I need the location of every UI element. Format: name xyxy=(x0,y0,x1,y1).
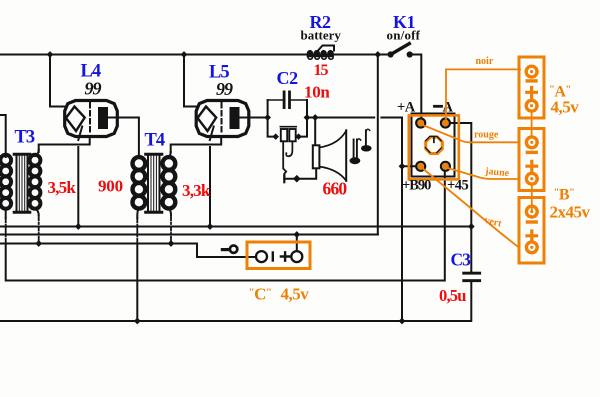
capacitor C3 plates xyxy=(462,272,481,275)
node junction line3 at T3 secondary xyxy=(35,240,42,247)
tube socket outer black rect xyxy=(412,114,455,177)
orange wire noir (-A to battery A minus) xyxy=(446,69,520,118)
wire phone left lead down xyxy=(283,141,286,176)
battery B upper polarity minus xyxy=(527,151,536,154)
node junction top bus at L4 xyxy=(47,51,54,58)
speaker horn top flare xyxy=(319,131,346,148)
tube L5 grid (dashed) xyxy=(221,103,223,135)
jack plug right xyxy=(361,129,372,151)
node junction speaker top xyxy=(312,114,319,121)
node junction line3 at T4 secondary xyxy=(168,240,175,247)
phone terminal tick xyxy=(283,175,285,182)
transformer T3 primary winding xyxy=(0,155,11,209)
tube socket center guide octagon xyxy=(426,137,443,153)
wire L4 grid to T3 secondary xyxy=(39,137,90,153)
wire C2/phone right leg xyxy=(302,100,308,137)
tube L5 plate xyxy=(230,107,240,129)
battery B lower polarity minus xyxy=(527,220,536,223)
tube L4 grid (dashed) xyxy=(89,103,91,135)
transformer T3 core xyxy=(14,154,30,213)
svg-text:99: 99 xyxy=(216,79,233,99)
phone earpiece coils xyxy=(281,129,287,141)
svg-text:3,3k: 3,3k xyxy=(182,181,211,200)
phone earpiece diaphragm caps xyxy=(280,126,296,128)
node junction line1 at L4 filament xyxy=(75,223,82,230)
jack plug left xyxy=(350,139,361,164)
svg-text:3,5k: 3,5k xyxy=(48,178,77,197)
socket pin -A xyxy=(441,119,450,128)
resistor R2 slider tap bracket xyxy=(319,46,335,51)
battery A minus terminal xyxy=(526,66,537,77)
node junction bottom bus at T4 primary xyxy=(134,318,141,325)
wire L5 filament down to bus line1 xyxy=(209,147,211,227)
transformer T3 secondary winding xyxy=(30,155,41,209)
wire T4 primary bottom lead to bottom bus (dashed through buses) xyxy=(137,208,139,218)
svg-text:10n: 10n xyxy=(304,83,330,102)
orange wire jaune (+45 to battery B middle) xyxy=(446,168,519,180)
battery A plus terminal xyxy=(526,100,537,111)
wire speaker top to C2 node xyxy=(314,118,316,146)
orange wire rouge (+A to battery B top) xyxy=(422,125,520,143)
wire L4 plate to T4 primary xyxy=(108,118,139,159)
svg-text:C3: C3 xyxy=(451,250,472,270)
wire node down to bottom bus xyxy=(401,166,403,321)
capacitor C2 plates xyxy=(283,91,286,110)
svg-text:+B90: +B90 xyxy=(402,178,431,194)
wire T3 primary top lead xyxy=(0,115,6,157)
transformer T4 secondary winding xyxy=(163,157,176,209)
node junction at +B90 branch xyxy=(399,163,406,170)
svg-text:99: 99 xyxy=(85,79,102,99)
transformer T3 xyxy=(0,115,123,247)
wire node to socket pin +B90 xyxy=(402,165,416,167)
wire C2 left stub xyxy=(268,99,283,101)
socket pin +A xyxy=(416,119,425,128)
svg-text:+A: +A xyxy=(397,100,416,116)
battery B upper minus terminal xyxy=(526,137,537,148)
tube L4 envelope xyxy=(65,101,118,137)
svg-text:jaune: jaune xyxy=(484,166,510,179)
orange wire battery A plus to B top xyxy=(531,111,533,137)
bus line3 to battery C minus xyxy=(0,244,256,258)
node junction bottom bus at 402 xyxy=(399,318,406,325)
wire K1 right contact to socket pin +A xyxy=(410,55,421,119)
bus line2 xyxy=(0,234,378,236)
tube L4 filament lead tail xyxy=(78,127,82,141)
orange wire battery B upper to lower xyxy=(531,184,533,212)
node junction L5 plate / C2 / phone xyxy=(264,114,271,121)
switch K1 pivot contact xyxy=(388,51,394,57)
wire speaker net to socket +B90 pin (with hop over K1 wire) xyxy=(307,118,402,167)
wire K1 left tap down to bus line2 xyxy=(377,55,379,235)
wire L4 filament down to bus line1 xyxy=(77,147,79,227)
wire top bus to tube L5 xyxy=(184,55,198,107)
svg-text:900: 900 xyxy=(98,177,123,196)
transformer T4 core xyxy=(146,154,162,213)
wire socket -A pin to C3 top xyxy=(450,123,471,272)
tube L5 filament lead tail xyxy=(210,127,214,141)
tube L4 filament xyxy=(66,107,85,132)
wire line2 down to battery C plus terminal xyxy=(296,235,298,251)
transformer T4 primary winding xyxy=(133,157,146,209)
resistor R2 rheostat coil xyxy=(307,50,334,57)
connector symbol on C wire xyxy=(222,248,229,251)
svg-text:0,5u: 0,5u xyxy=(439,286,466,305)
svg-text:15: 15 xyxy=(314,62,329,79)
wire T3 primary bottom lead (dashed through buses) xyxy=(5,208,7,218)
wire T4 secondary bottom lead (dashed to line3) xyxy=(169,208,171,215)
battery C plus terminal xyxy=(291,251,302,262)
node junction line1 end at C3 branch xyxy=(468,223,475,230)
label pin -A xyxy=(435,105,442,108)
speaker horn mouth xyxy=(345,130,347,181)
tube socket orange rect xyxy=(409,115,459,179)
svg-text:660: 660 xyxy=(323,179,348,199)
svg-text:T3: T3 xyxy=(15,128,35,148)
svg-text:rouge: rouge xyxy=(474,130,499,141)
battery A block xyxy=(519,57,544,118)
battery B upper polarity plus xyxy=(527,161,537,171)
phone cord hook xyxy=(286,141,292,156)
battery B upper plus terminal xyxy=(526,173,537,184)
svg-text:A: A xyxy=(443,100,454,116)
battery B lower polarity plus xyxy=(527,231,537,241)
bus line1 xyxy=(0,226,471,228)
wire T4 secondary top lead xyxy=(169,152,171,158)
svg-text:4,5v: 4,5v xyxy=(551,98,580,117)
tube L4 plate xyxy=(98,107,108,129)
battery A polarity plus xyxy=(527,88,537,98)
battery B lower minus terminal xyxy=(526,206,537,217)
svg-text:4,5v: 4,5v xyxy=(281,285,310,304)
battery B lower plus terminal xyxy=(526,242,537,253)
svg-text:battery: battery xyxy=(301,28,342,43)
wire L5 grid to T4 secondary xyxy=(171,137,222,153)
svg-text:noir: noir xyxy=(476,56,494,67)
battery C polarity marks xyxy=(272,253,274,261)
phone earpiece right terminal xyxy=(295,133,302,140)
tube L5 envelope xyxy=(196,101,249,137)
svg-text:T4: T4 xyxy=(145,131,165,151)
tube L5 filament xyxy=(198,107,217,132)
battery B lower block xyxy=(519,198,544,264)
node junction C2 right / speaker net xyxy=(304,114,311,121)
bottom bus wire xyxy=(0,282,471,321)
node junction top bus at K1 tap xyxy=(374,51,381,58)
switch K1 blade xyxy=(391,44,410,55)
wire R2 to K1 pivot xyxy=(334,54,389,56)
battery A polarity minus xyxy=(527,79,536,82)
switch K1 right contact xyxy=(407,51,413,57)
wire T3 primary bottom to socket +45 pin (long return) xyxy=(6,171,445,281)
orange wire vert (+B90 to battery B bottom) xyxy=(422,168,520,248)
node junction top bus at L5 xyxy=(181,51,188,58)
svg-text:2x45v: 2x45v xyxy=(550,203,591,222)
socket pin +45 xyxy=(441,162,450,171)
speaker horn bottom flare xyxy=(319,167,346,181)
svg-text:C2: C2 xyxy=(277,68,299,88)
wire phone terminal to speaker bottom xyxy=(284,168,316,178)
node blob on phone-speaker wire xyxy=(293,175,301,183)
wire C2 right stub xyxy=(291,99,307,101)
wire top bus left segment xyxy=(0,54,307,56)
transformer T4 xyxy=(133,131,211,325)
wire C2/phone left leg xyxy=(268,100,273,137)
speaker driver xyxy=(313,145,320,168)
node junction line2 at battery C plus xyxy=(293,231,300,238)
wire L5 plate to C2 node xyxy=(240,117,268,119)
battery B upper block xyxy=(519,129,544,191)
wire top bus to tube L4 xyxy=(50,55,66,107)
battery C minus terminal xyxy=(256,251,267,262)
svg-text:on/off: on/off xyxy=(387,28,421,43)
socket pin +B90 xyxy=(416,162,425,171)
phone earpiece left terminal xyxy=(272,133,279,140)
wire T3 secondary bottom lead (dashed to line3) xyxy=(35,208,39,215)
node junction line1 at L5 filament xyxy=(207,223,214,230)
battery C block xyxy=(247,242,310,269)
tube socket key tick xyxy=(433,137,435,143)
wire T3 secondary top lead xyxy=(35,150,39,156)
